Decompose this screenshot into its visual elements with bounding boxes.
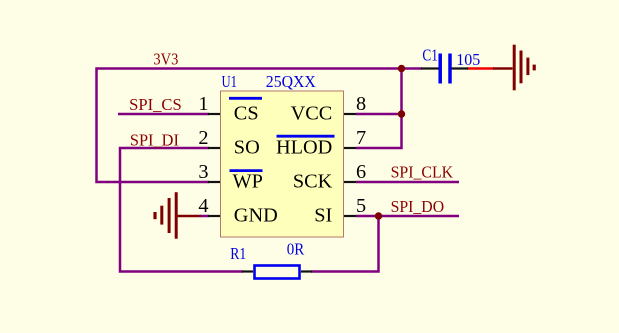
- svg-text:SCK: SCK: [293, 171, 333, 193]
- svg-text:25QXX: 25QXX: [266, 72, 316, 91]
- pin 6 stub: [343, 181, 356, 183]
- svg-text:3V3: 3V3: [153, 49, 178, 68]
- svg-text:U1: U1: [222, 72, 238, 91]
- svg-text:SPI_CS: SPI_CS: [129, 95, 182, 114]
- svg-text:SPI_CLK: SPI_CLK: [391, 163, 454, 182]
- svg-text:R1: R1: [230, 244, 246, 263]
- svg-text:VCC: VCC: [291, 103, 333, 125]
- overline for CS: [229, 97, 262, 100]
- ground left: lead: [177, 215, 201, 218]
- resistor R1 left stub: [242, 270, 253, 272]
- junction dot at pin 8: [398, 110, 405, 117]
- capacitor C1 left lead: [421, 67, 439, 69]
- svg-text:HLOD: HLOD: [276, 137, 332, 159]
- overline for WP: [230, 169, 263, 172]
- wire SPI_DI to pin 2, down and along bottom to R1: [120, 148, 243, 272]
- wire VCC drop from 3V3 rail to pin 8 and pin 7: [356, 69, 402, 149]
- ground left: bars: [175, 192, 178, 239]
- svg-text:5: 5: [356, 195, 366, 217]
- wire 3V3 net: top rail, left drop, to WP pin 3: [97, 69, 423, 183]
- svg-text:SPI_DO: SPI_DO: [391, 197, 445, 216]
- wire pin 8 branch: [356, 113, 402, 116]
- wire GND pin 4 stub: [200, 215, 209, 218]
- junction dot on 3V3 rail: [398, 65, 405, 72]
- pin 5 stub: [343, 215, 356, 217]
- resistor R1 body: [255, 266, 300, 279]
- capacitor C1 plates: [438, 54, 442, 84]
- svg-text:105: 105: [456, 50, 480, 69]
- svg-text:3: 3: [198, 161, 208, 183]
- svg-text:WP: WP: [233, 171, 263, 193]
- junction dot at pin 5: [375, 212, 382, 219]
- svg-text:0R: 0R: [287, 240, 305, 259]
- resistor R1 right stub: [301, 270, 312, 272]
- ground right: lead: [493, 67, 513, 70]
- pin 1 stub: [208, 113, 222, 115]
- wire SPI_DO from pin 5: [356, 215, 459, 218]
- wire SPI_CLK from pin 6: [356, 181, 459, 184]
- wire SPI_CS to pin 1: [118, 113, 209, 116]
- svg-text:7: 7: [356, 127, 366, 149]
- svg-text:8: 8: [356, 93, 366, 115]
- IC U1 body: [221, 91, 344, 237]
- svg-text:6: 6: [356, 161, 366, 183]
- pin 2 stub: [208, 147, 222, 149]
- pin 3 stub: [208, 181, 222, 183]
- svg-text:4: 4: [198, 195, 208, 217]
- svg-text:GND: GND: [234, 205, 278, 227]
- svg-text:SI: SI: [314, 205, 332, 227]
- capacitor C1 right lead: [452, 67, 469, 69]
- wire red segment C1 to ground: [467, 67, 494, 70]
- pin 8 stub: [343, 113, 356, 115]
- overline for HLOD: [277, 135, 335, 138]
- svg-text:SPI_DI: SPI_DI: [130, 131, 179, 150]
- svg-text:SO: SO: [234, 137, 260, 159]
- svg-text:2: 2: [198, 127, 208, 149]
- pin 7 stub: [343, 147, 356, 149]
- ground right: bars: [513, 45, 516, 91]
- svg-text:1: 1: [198, 93, 208, 115]
- wire R1 right side up to SI pin 5: [311, 216, 379, 272]
- svg-text:CS: CS: [234, 103, 259, 125]
- pin 4 stub: [208, 215, 222, 217]
- svg-text:C1: C1: [422, 46, 438, 65]
